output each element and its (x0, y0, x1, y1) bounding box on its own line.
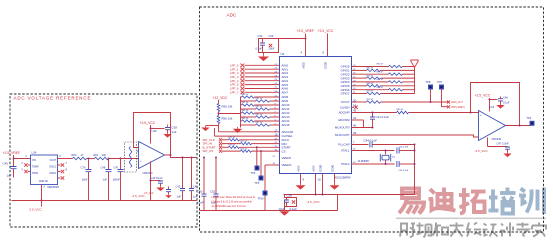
ground C40 (156, 186, 164, 191)
wire VREFN (265, 164, 280, 166)
svg-text:AIN7: AIN7 (282, 91, 289, 95)
svg-text:R83 1k: R83 1k (256, 106, 264, 108)
wire C48 stem (108, 159, 110, 170)
ground C46 (496, 104, 504, 109)
svg-text:TP9: TP9 (437, 80, 442, 84)
svg-text:6: 6 (60, 156, 62, 158)
watermark subtitle char xian 线 (467, 223, 481, 237)
svg-text:DNC2: DNC2 (49, 172, 56, 175)
LPF channel 6 : net label LPF_6, X, wire, pin AIN6 (230, 87, 288, 91)
wire C45 to bus (399, 163, 414, 165)
wire ADCINP to opamp (409, 112, 479, 114)
test point TP10 (263, 191, 268, 196)
resistor R60 (73, 157, 87, 160)
capacitor C43 (180, 189, 185, 191)
svg-text:+2.5_VREF: +2.5_VREF (3, 151, 21, 155)
svg-text:R61: R61 (94, 153, 99, 157)
wire VREF gnd rail (200, 210, 338, 212)
svg-text:4: 4 (44, 187, 46, 189)
svg-text:R87 1k: R87 1k (256, 122, 264, 124)
svg-text:ADCINM: ADCINM (338, 118, 350, 122)
watermark char yi 易 (399, 189, 424, 214)
refdes U16 (490, 106, 495, 109)
node C44 tap (191, 157, 193, 159)
watermark char di 迪 (429, 188, 456, 211)
ground C58 (279, 210, 289, 216)
svg-text:TP6: TP6 (251, 171, 256, 175)
wire NC stub (58, 177, 61, 179)
wire C79 to rail (88, 172, 90, 201)
capacitor C38 (165, 128, 170, 130)
GPIO row 1 : pin GPIO1, resistor R64, wire (341, 68, 415, 73)
wire MUXOUTP to opamp (352, 135, 479, 137)
ground arrow AVSS (295, 184, 305, 190)
wire opamp V+ supply (150, 125, 152, 144)
svg-text:R81 1k: R81 1k (256, 98, 264, 100)
capacitor C44p (370, 142, 372, 148)
svg-text:TEMP: TEMP (32, 166, 39, 169)
no-connect X DNC2 (61, 170, 64, 173)
GPIO row 6 : pin GPIO6, resistor R69, wire (341, 87, 415, 92)
svg-text:10: 10 (318, 178, 322, 182)
wire C79 stem (88, 159, 90, 170)
svg-text:DGND: DGND (333, 164, 335, 171)
node C47 tap (120, 158, 122, 160)
wire CLKEN stub (352, 106, 355, 108)
pin name ADCINM (338, 118, 350, 122)
net label +3.3_VCC (318, 29, 334, 33)
wire GPIO pull bus (414, 67, 416, 94)
capacitor C51 (214, 194, 219, 196)
ground divider (201, 126, 209, 131)
svg-text:7: 7 (353, 141, 355, 145)
svg-text:VIN: VIN (32, 159, 36, 162)
svg-text:ADC VOLTAGE REFERENCE: ADC VOLTAGE REFERENCE (14, 96, 92, 101)
wire DGND stub (322, 174, 324, 195)
resistor R64 (129, 147, 132, 168)
svg-text:C30: C30 (258, 34, 263, 38)
svg-text:C51: C51 (210, 190, 216, 194)
svg-text:CLKEN: CLKEN (340, 105, 350, 109)
svg-text:DGND: DGND (321, 164, 323, 171)
wire opamp V- to rail (150, 162, 152, 201)
capacitor C42 with ground (144, 193, 154, 195)
label ADC VOLTAGE REFERENCE (14, 96, 92, 101)
no-connect X CLKEN (354, 106, 357, 109)
capacitor C58 (284, 200, 289, 202)
GPIO row 7 : pin GPIO7, resistor R70, wire (341, 91, 415, 96)
wire to U14 VIN (14, 158, 31, 160)
svg-text:0.1uF: 0.1uF (290, 207, 298, 211)
svg-text:U14: U14 (32, 151, 37, 155)
test point TP6 (255, 166, 260, 171)
wire TP10 to rail (264, 196, 266, 211)
wire C50 stem (203, 158, 205, 195)
wire DNC2 stub (58, 171, 61, 173)
LPF channel 3 : net label LPF_3, X, wire, pin AIN3 (230, 75, 288, 79)
pin name PLLCAP (338, 143, 349, 147)
svg-text:2: 2 (26, 156, 28, 158)
ground C47o (503, 152, 511, 157)
svg-text:AIN15: AIN15 (282, 123, 290, 127)
watermark subtitle char he 和 (433, 223, 448, 237)
watermark subtitle char ji 计 (500, 223, 513, 237)
GPIO row 5 : pin GPIO5, resistor R68, wire (341, 83, 415, 88)
svg-text:ADC: ADC (227, 13, 237, 18)
pin 31 (273, 156, 276, 158)
svg-text:VOUT: VOUT (49, 159, 56, 162)
refdes U10 (152, 129, 157, 133)
wire DVDD supply (327, 34, 329, 57)
svg-text:TP8: TP8 (426, 80, 431, 84)
pin 36 (273, 163, 276, 165)
wire ADCINP (352, 112, 397, 114)
test point TP9 (439, 85, 444, 90)
pin name AVSS2 (313, 165, 316, 171)
svg-text:R70 47: R70 47 (367, 91, 375, 93)
watermark char tuo 拓 (459, 188, 486, 214)
wire U14 GND down (41, 185, 43, 207)
LPF channel 7 : net label LPF_7, X, wire, pin AIN7 (230, 90, 288, 94)
capacitor C44 (189, 189, 194, 191)
svg-text:C50: C50 (197, 190, 203, 194)
svg-text:40: 40 (353, 124, 357, 128)
pin 2 (26, 156, 28, 158)
wire feedback loop (134, 113, 171, 156)
svg-text:R69 47: R69 47 (377, 87, 385, 89)
capacitor C30 (260, 43, 265, 45)
svg-text:U10: U10 (152, 129, 157, 133)
svg-text:C41 0.1uF: C41 0.1uF (376, 115, 390, 119)
pin 5 (22, 170, 24, 172)
wire AVDD supply (305, 34, 307, 57)
net label +12_VDC (213, 96, 228, 100)
svg-text:3: 3 (22, 163, 24, 165)
net label +2.5_VCC (140, 121, 156, 125)
no-connect X DNC1 (61, 163, 64, 166)
svg-text:CS: CS (282, 149, 286, 153)
wire AINCOM row (219, 131, 280, 133)
ground arrow GPIO bus (411, 60, 419, 68)
resistor R65 (217, 104, 220, 112)
wire to ground (206, 125, 219, 127)
node TP5 tap (260, 150, 262, 152)
node C50 tap (203, 157, 205, 159)
svg-text:8: 8 (66, 168, 68, 172)
pin name VREFP (282, 156, 292, 160)
capacitor C47o (505, 147, 510, 149)
wire AVSS2 stub (315, 174, 317, 195)
svg-text:ADCINP: ADCINP (339, 111, 350, 115)
wire -2.5 rail left box (12, 200, 197, 202)
node C48 tap (108, 158, 110, 160)
node TP8 tap (430, 101, 432, 103)
capacitor C50 (202, 194, 207, 196)
wire decoupling loop (259, 39, 279, 53)
wire to C46 (490, 99, 498, 101)
svg-text:C38: C38 (172, 126, 178, 130)
svg-text:U13 pin 9 & U13 30 pins as pos: U13 pin 9 & U13 30 pins as possible (212, 201, 253, 204)
svg-text:39: 39 (353, 131, 357, 135)
svg-text:R65 47: R65 47 (377, 71, 385, 73)
SPI row SPI_CS : net label, X, resistor R74, wire, pin CS (203, 148, 286, 153)
svg-text:16.384MHz: 16.384MHz (358, 161, 371, 163)
svg-text:TP4: TP4 (527, 116, 532, 120)
svg-text:+: + (480, 113, 482, 117)
node C43 tap (182, 157, 184, 159)
svg-text:-: - (480, 136, 481, 140)
ground arrow DGND (329, 184, 339, 190)
svg-text:R82 1k: R82 1k (242, 102, 250, 104)
capacitor C41 (372, 113, 374, 118)
filter row 0 : resistor R80, wire, pin AIN8 (241, 94, 289, 99)
filter row 5 : resistor R85, wire, pin AIN13 (241, 114, 290, 119)
svg-text:R72 47: R72 47 (241, 141, 249, 143)
wire -2.5 rail big box (284, 194, 415, 196)
capacitor C48 (106, 170, 112, 172)
svg-text:R73 47: R73 47 (229, 145, 237, 147)
net label +2.5_VCC U16 (475, 94, 491, 98)
svg-text:0.1uF: 0.1uF (256, 47, 263, 51)
SPI row B_START : net label, X, resistor R73, wire, pin START (203, 145, 291, 150)
svg-text:AVSS: AVSS (313, 165, 316, 171)
no-connect X TRIM (24, 170, 27, 173)
svg-text:R65 10k: R65 10k (222, 105, 233, 109)
net label -2.5_VCC ADC (307, 200, 321, 204)
GPIO row 3 : pin GPIO3, resistor R66, wire (341, 75, 415, 80)
svg-text:R66 47: R66 47 (367, 75, 375, 77)
svg-text:GPIO7: GPIO7 (341, 92, 350, 96)
svg-text:R68 47: R68 47 (367, 83, 375, 85)
refdes U2 (281, 52, 285, 56)
wire DNC1 stub (58, 164, 61, 166)
wire TP6 (256, 147, 258, 165)
wire MUXOUTN (352, 127, 373, 129)
wire filter bus (240, 97, 242, 128)
refdes U14 (32, 151, 37, 155)
no-connect X TEMP (24, 163, 27, 166)
wire rail riser (337, 195, 339, 211)
svg-text:0.1uF: 0.1uF (503, 101, 510, 105)
wire CLKSEL riser (214, 128, 216, 136)
svg-text:R63 47: R63 47 (377, 64, 385, 66)
node TP6 tap (256, 146, 258, 148)
wire xtal gnd bus (414, 145, 416, 195)
watermark subtitle char pin 频 (417, 223, 432, 238)
wire to opamp +in (109, 158, 139, 160)
svg-text:10uF: 10uF (197, 201, 204, 205)
svg-text:R85 1k: R85 1k (256, 114, 264, 116)
pin name DVDD (326, 62, 328, 69)
watermark subtitle char jia 家 (532, 223, 546, 237)
svg-text:C44 0.1uF: C44 0.1uF (364, 139, 378, 143)
net label +2.5_VREF (3, 151, 21, 155)
wire C44 stem (191, 158, 193, 189)
op-amp U10 OPA350 triangle (139, 142, 165, 169)
svg-text:+: + (140, 159, 142, 163)
wire TP8 (430, 90, 432, 103)
svg-text:Layout note: Move D4 10uF as c: Layout note: Move D4 10uF as close to (212, 196, 256, 199)
wire PLLCAP to bus (373, 144, 415, 146)
svg-text:+12_VDC: +12_VDC (213, 96, 228, 100)
svg-text:C29: C29 (269, 34, 274, 38)
wire divider bottom (218, 124, 220, 132)
svg-text:C48: C48 (101, 166, 106, 170)
svg-text:C47: C47 (114, 166, 119, 170)
filter row 4 : resistor R84, wire, pin AIN12 (241, 110, 290, 115)
wire CLKSEL row (215, 135, 280, 137)
watermark underline (396, 218, 546, 220)
value OPA350 (143, 171, 153, 175)
svg-text:5: 5 (22, 170, 24, 172)
pin 3 (22, 163, 24, 165)
wire C43 to bus (399, 150, 414, 152)
svg-text:XTAL2: XTAL2 (341, 162, 350, 166)
pin 4 (44, 187, 46, 189)
component X C29 (269, 44, 272, 47)
ADC U2 ADS1258 body (280, 57, 352, 174)
svg-text:1uF: 1uF (103, 178, 108, 182)
pin name VREFN (282, 163, 292, 167)
layout note text (212, 196, 256, 208)
wire DOUT long (381, 101, 448, 103)
svg-text:R80 47: R80 47 (397, 109, 405, 111)
node AVDD (305, 38, 307, 40)
net flag VAIN_OUT (447, 101, 463, 105)
svg-text:R74 47: R74 47 (241, 148, 249, 150)
svg-text:OPA335: OPA335 (492, 137, 502, 141)
wire TEMP stub (28, 164, 31, 166)
svg-text:10uF: 10uF (269, 47, 275, 51)
svg-text:Y1: Y1 (392, 157, 396, 159)
watermark char xun 训 (519, 188, 544, 215)
wire C58 loop (285, 195, 297, 207)
svg-text:LPF_7: LPF_7 (230, 90, 239, 94)
svg-text:1uF: 1uF (7, 174, 12, 178)
ground decoupling (258, 55, 269, 62)
wire to AVDD (279, 38, 306, 40)
wire to C47 (488, 146, 508, 148)
svg-text:VREFP: VREFP (282, 156, 292, 160)
svg-text:C47 3.3nF: C47 3.3nF (497, 142, 510, 146)
svg-text:R86 1k: R86 1k (242, 118, 250, 120)
svg-text:C43: C43 (176, 185, 181, 189)
svg-text:+2.5_VREF: +2.5_VREF (297, 29, 315, 33)
svg-text:+3.3_VCC: +3.3_VCC (318, 29, 334, 33)
svg-text:C79: C79 (81, 166, 86, 170)
capacitor C47 (118, 170, 124, 172)
svg-text:U16: U16 (490, 106, 495, 109)
SPI row SPI_CLK : net label, X, resistor R71, wire, pin SCLK (203, 137, 290, 142)
svg-text:C40 0.1uF: C40 0.1uF (151, 176, 164, 180)
svg-text:10uF: 10uF (82, 178, 88, 182)
svg-text:-2.5_VCC: -2.5_VCC (29, 208, 43, 212)
wire C43 stem (182, 158, 184, 189)
svg-text:DOUT: DOUT (341, 100, 349, 104)
svg-text:13: 13 (353, 104, 357, 108)
svg-text:MUXOUTP: MUXOUTP (335, 133, 350, 137)
wire VPP row (442, 106, 448, 108)
node divider tap (218, 113, 220, 115)
value OPA335 (492, 137, 502, 141)
pin name CLKSEL (282, 134, 293, 138)
svg-text:7: 7 (66, 161, 68, 165)
capacitor C79 (86, 170, 92, 172)
node feedback join (470, 112, 472, 114)
resistor R66 (217, 116, 220, 124)
capacitor C45 (11, 167, 17, 169)
svg-text:R80 1k: R80 1k (242, 94, 250, 96)
wire C48 to rail (108, 172, 110, 201)
capacitor C40 (151, 180, 161, 182)
svg-text:C45: C45 (3, 162, 9, 166)
wire VOUT (58, 158, 73, 160)
svg-text:C45 4.7pF: C45 4.7pF (399, 170, 409, 172)
node VIN junction (13, 158, 15, 160)
filter row 6 : resistor R86, wire, pin AIN14 (241, 118, 290, 123)
wire XTAL2 (352, 163, 395, 165)
svg-text:-2.5_VCC: -2.5_VCC (475, 149, 489, 153)
svg-text:TP10: TP10 (258, 197, 265, 201)
svg-text:-2.5_VCC: -2.5_VCC (307, 200, 321, 204)
ground C42 (165, 194, 172, 198)
svg-text:MUXOUTN: MUXOUTN (335, 126, 350, 130)
svg-text:ADS1258IPW: ADS1258IPW (335, 175, 352, 179)
wire to C38 (151, 128, 165, 130)
svg-text:R64 47: R64 47 (367, 68, 375, 70)
LPF channel 5 : net label LPF_5, X, wire, pin AIN5 (230, 83, 288, 87)
value REF5025 (48, 185, 60, 189)
svg-text:C46: C46 (503, 96, 508, 100)
LPF channel 2 : net label LPF_2, X, wire, pin AIN2 (230, 71, 288, 75)
wire TP9 (441, 90, 443, 107)
LPF channel 1 : net label LPF_1, X, wire, pin AIN1 (230, 67, 288, 71)
pin name MUXOUTP (335, 133, 350, 137)
svg-text:1uF: 1uF (172, 130, 177, 134)
wire C45 lower stem (13, 169, 15, 178)
wire DGND2 stub (334, 174, 336, 184)
wire XTAL1 (352, 150, 395, 152)
svg-text:PLLCAP: PLLCAP (338, 143, 349, 147)
wire U16 V- (487, 138, 489, 147)
test point TP5 (259, 176, 264, 181)
svg-text:8: 8 (323, 51, 325, 55)
net flag VPP (GREY) (447, 105, 465, 109)
wire PLLCAP (352, 144, 369, 146)
pin name DGND (321, 164, 323, 171)
svg-text:-: - (140, 147, 141, 151)
net label -2.5_VCC (ref gnd) (29, 208, 43, 212)
svg-text:-2.5_VCC: -2.5_VCC (144, 193, 154, 195)
svg-text:9: 9 (303, 178, 305, 182)
wire TP5 (260, 151, 262, 175)
svg-text:SPI_CS: SPI_CS (203, 149, 214, 153)
test point TP8 (428, 85, 433, 90)
wire ADCINM (352, 119, 364, 121)
wire U16 output (506, 125, 531, 127)
svg-text:U2: U2 (281, 52, 285, 56)
node feedback tap (170, 154, 172, 156)
svg-text:100nF: 100nF (113, 178, 121, 182)
svg-text:42: 42 (353, 109, 357, 113)
pin name XTAL2 (341, 162, 350, 166)
svg-text:C58: C58 (287, 194, 293, 198)
filter row 7 : resistor R87, wire, pin AIN15 (241, 122, 290, 127)
no-connect X NC (61, 176, 64, 179)
svg-text:1uF: 1uF (177, 195, 182, 199)
svg-text:AVDD: AVDD (303, 62, 306, 69)
test point TP4 (530, 121, 535, 126)
